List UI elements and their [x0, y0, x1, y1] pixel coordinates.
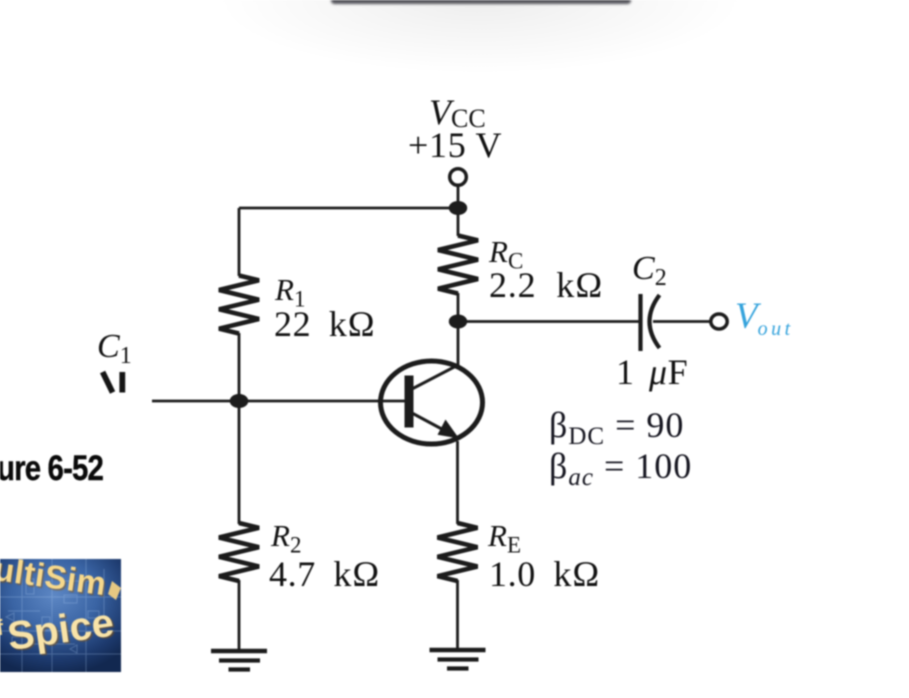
capacitor C2 curved plate: [650, 295, 660, 348]
label Vout: [735, 295, 794, 341]
ground symbol left: [211, 651, 267, 670]
transistor Q1 collector stroke: [411, 365, 459, 390]
ground symbol right: [430, 650, 486, 669]
node: top junction dot: [449, 201, 467, 215]
wire: base input horizontal to transistor base: [152, 400, 406, 403]
wire: transistor emitter down to RE: [456, 441, 459, 524]
label C1: [97, 328, 132, 370]
label beta ac = 100: [549, 445, 692, 492]
wire: top junction down to RC: [457, 208, 460, 236]
label 2.2 kOhm: [489, 264, 603, 306]
label 1.0 kOhm: [489, 553, 600, 595]
soft gray shadow under top bar: [150, 0, 810, 100]
transistor Q1 base bar: [405, 376, 414, 428]
label RE: [488, 518, 521, 559]
label C2: [632, 250, 667, 292]
wire: left column from top horizontal down to R1: [238, 208, 241, 276]
label RC: [489, 234, 523, 275]
label +15 V: [408, 124, 502, 166]
resistor RE zigzag: [438, 523, 478, 581]
caption fragment "ure 6-52": [0, 449, 103, 489]
node: base junction dot: [230, 394, 249, 408]
label beta DC = 90: [549, 404, 684, 451]
resistor RC zigzag: [438, 236, 478, 294]
capacitor C1 leftover glyph fragment: [103, 372, 123, 393]
wire: VCC terminal to top junction: [457, 184, 460, 208]
top dark bar (cropped element at top of page): [331, 0, 631, 4]
transistor Q1 emitter stroke with arrow: [411, 413, 452, 435]
capacitor C2 left plate: [638, 294, 642, 351]
label R1: [275, 272, 305, 313]
resistor R2 zigzag: [219, 523, 259, 581]
label 4.7 kOhm: [269, 553, 380, 595]
wire: collector junction down into transistor: [457, 322, 460, 366]
resistor R1 zigzag: [219, 276, 259, 334]
label 22 kOhm: [274, 303, 376, 345]
wire: collector junction to C2: [458, 320, 639, 323]
VCC terminal open circle: [450, 169, 467, 186]
wire: top horizontal from R1 column to top junction: [239, 207, 458, 210]
label R2: [271, 518, 301, 559]
wire: C2 to Vout terminal: [653, 320, 711, 323]
label 1 uF: [616, 351, 688, 393]
transistor Q1 circle: [381, 361, 483, 444]
wire: RE bottom to ground: [456, 580, 459, 651]
MultiSim/Spice logo: [0, 559, 121, 672]
wire: R1 bottom to base node and down to R2: [238, 333, 241, 524]
wire: RC bottom to collector junction: [457, 293, 460, 322]
Vout terminal open circle: [711, 314, 727, 329]
label VCC: [429, 91, 486, 134]
wire: R2 bottom to ground: [238, 580, 241, 651]
node: collector junction dot: [449, 315, 467, 329]
